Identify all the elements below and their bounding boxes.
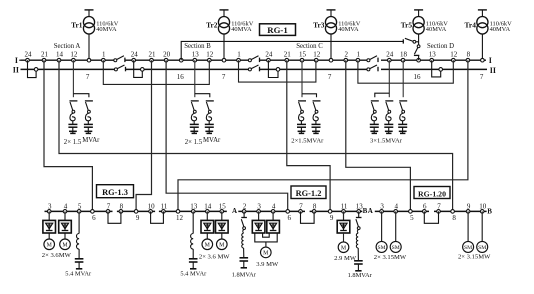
motor SM RG-1.20 node4 bbox=[390, 211, 401, 252]
wire feed capacitor bank A bbox=[73, 60, 89, 97]
node 8 RG-1.2 bbox=[312, 202, 317, 213]
svg-text:B: B bbox=[487, 208, 492, 216]
wire tie A1-B12 bbox=[103, 60, 209, 84]
label box RG-1.20 bbox=[414, 187, 450, 199]
svg-text:15: 15 bbox=[219, 202, 227, 210]
svg-text:10: 10 bbox=[148, 202, 156, 210]
wire reserve tie line bbox=[181, 39, 403, 60]
svg-text:3.9 MW: 3.9 MW bbox=[256, 261, 279, 268]
motor M RG-1.2 2.9MW bbox=[334, 233, 357, 262]
svg-text:14: 14 bbox=[204, 202, 212, 210]
label box RG-1.2 bbox=[291, 186, 326, 199]
node 21 section B bbox=[149, 51, 157, 62]
disconnector Tr5 lower bbox=[414, 45, 420, 60]
svg-text:RG-1.3: RG-1.3 bbox=[102, 188, 128, 197]
capacitor branch B2 bbox=[205, 101, 214, 133]
svg-text:1: 1 bbox=[237, 51, 241, 59]
bus II section C bbox=[260, 68, 367, 70]
disconnector bus I A-B bbox=[114, 56, 125, 62]
svg-text:9: 9 bbox=[136, 214, 140, 222]
disconnector bus I C-D bbox=[367, 56, 378, 62]
node 7 RG-1.20 bbox=[437, 202, 442, 213]
breaker RG-1.3 x65.0 bbox=[59, 211, 72, 239]
bus I section A bbox=[21, 59, 115, 61]
node 9 RG-1.20 bbox=[466, 202, 471, 213]
jumper bus I-II section B bbox=[134, 60, 144, 77]
capacitor branch D3 bbox=[398, 101, 407, 133]
label Section D bbox=[427, 43, 454, 50]
svg-text:1: 1 bbox=[357, 51, 361, 59]
svg-text:M: M bbox=[341, 246, 347, 252]
node Tr section A bbox=[87, 58, 91, 62]
motor M RG-1.2 3.9MW bbox=[256, 247, 279, 268]
svg-text:40MVA: 40MVA bbox=[96, 26, 117, 33]
node 13 section B bbox=[192, 51, 200, 62]
breaker RG-1.3 x207.3 bbox=[201, 211, 214, 239]
svg-text:40MVA: 40MVA bbox=[231, 26, 252, 33]
breaker RG-1.3 x49.2 bbox=[43, 211, 56, 239]
label box RG-1.3 bbox=[97, 185, 134, 198]
label bus I right bbox=[489, 56, 492, 65]
svg-text:21: 21 bbox=[284, 51, 292, 59]
svg-text:8: 8 bbox=[452, 214, 456, 222]
svg-text:M: M bbox=[47, 243, 53, 249]
label 2x3.15MW left bbox=[374, 254, 407, 261]
transformer Tr2 bbox=[206, 10, 254, 60]
svg-text:24: 24 bbox=[265, 51, 273, 59]
jumper bus I-II section A bbox=[28, 60, 38, 77]
reactor+capacitor RG-1.3 node13 bbox=[180, 211, 207, 277]
svg-text:II: II bbox=[490, 66, 496, 75]
svg-text:MVAr: MVAr bbox=[203, 137, 221, 144]
svg-text:13: 13 bbox=[192, 51, 200, 59]
disconnector+reactor+capacitor RG-1.2 node13 bbox=[348, 211, 373, 278]
node 8 section D bbox=[466, 51, 471, 62]
breaker RG-1.2 node3 bbox=[252, 211, 265, 233]
breaker RG-1.2 node4 bbox=[267, 211, 280, 233]
svg-text:24: 24 bbox=[386, 51, 394, 59]
disconnector bus II A-B bbox=[114, 65, 125, 71]
svg-text:11: 11 bbox=[341, 202, 348, 210]
svg-text:M: M bbox=[219, 243, 225, 249]
bus RG-1.20 seg1 bbox=[375, 210, 429, 212]
wire feeder C21 to RG-1.2 node9 bbox=[287, 60, 330, 211]
svg-text:6: 6 bbox=[423, 202, 427, 210]
label 2x3.6MW left bbox=[42, 252, 72, 259]
bus II section D bbox=[381, 68, 487, 70]
svg-text:12: 12 bbox=[176, 214, 184, 222]
node 13 section D bbox=[429, 51, 437, 62]
wire feed capacitor bank D bbox=[375, 60, 403, 97]
label bay 16 bbox=[177, 73, 185, 81]
svg-text:SM: SM bbox=[478, 245, 486, 251]
wire feeder A14 to RG-1.20 node8 bbox=[59, 60, 453, 211]
node 21 section C bbox=[284, 51, 292, 62]
svg-text:2× 3.15MW: 2× 3.15MW bbox=[458, 253, 491, 260]
svg-text:5.4 MVAr: 5.4 MVAr bbox=[180, 271, 207, 278]
svg-text:Section A: Section A bbox=[54, 43, 81, 50]
node 12 section D bbox=[450, 51, 458, 62]
svg-text:M: M bbox=[205, 243, 211, 249]
svg-text:21: 21 bbox=[149, 51, 157, 59]
svg-text:5: 5 bbox=[410, 214, 414, 222]
wire feeder C2 to RG-1.20 node5 bbox=[346, 60, 411, 211]
bus I section D bbox=[381, 59, 486, 61]
svg-text:3×1.5MVAr: 3×1.5MVAr bbox=[370, 137, 403, 144]
jumper RG-1.3 7-8 bbox=[108, 211, 121, 223]
disconnector bus II B-C bbox=[248, 65, 259, 71]
disconnector Tr5 upper bbox=[405, 38, 419, 43]
svg-text:8: 8 bbox=[313, 202, 317, 210]
node 9 RG-1.2 bbox=[328, 210, 334, 223]
svg-text:2.9 MW: 2.9 MW bbox=[334, 255, 357, 262]
node 5 RG-1.20 bbox=[409, 210, 415, 223]
motor M RG-1.3 x207.3 bbox=[202, 239, 213, 250]
capacitor branch A1 bbox=[68, 101, 77, 133]
svg-text:7: 7 bbox=[480, 73, 484, 81]
svg-text:2× 3.6MW: 2× 3.6MW bbox=[42, 252, 72, 259]
node 9 RG-1.3 bbox=[134, 210, 140, 223]
label bay 7 bbox=[480, 73, 484, 81]
svg-text:24: 24 bbox=[131, 51, 139, 59]
svg-text:MVAr: MVAr bbox=[82, 137, 100, 144]
svg-text:2× 1.5: 2× 1.5 bbox=[185, 139, 203, 146]
motor SM RG-1.20 node3 bbox=[376, 211, 387, 252]
node 4 RG-1.20 bbox=[394, 202, 399, 213]
svg-text:RG-1: RG-1 bbox=[267, 25, 288, 35]
label bus I left bbox=[15, 56, 21, 65]
svg-text:2: 2 bbox=[243, 202, 247, 210]
label 2x3.15MW right bbox=[458, 253, 491, 260]
node 3 RG-1.3 bbox=[47, 202, 52, 213]
node Tr section D bbox=[417, 58, 421, 62]
svg-text:RG-1.20: RG-1.20 bbox=[418, 189, 446, 198]
svg-text:10: 10 bbox=[479, 202, 487, 210]
svg-text:I: I bbox=[15, 56, 18, 65]
reactor+capacitor RG-1.3 node5 bbox=[65, 211, 92, 277]
node 12 section A bbox=[70, 51, 78, 62]
label bus II right bbox=[490, 66, 496, 75]
node 2 section C bbox=[344, 51, 349, 62]
node 3 RG-1.2 bbox=[257, 202, 262, 213]
bus I section C bbox=[260, 59, 367, 61]
svg-text:12: 12 bbox=[70, 51, 78, 59]
svg-text:2: 2 bbox=[345, 51, 349, 59]
label Section B bbox=[184, 43, 211, 50]
wire tie C1-D12 bbox=[358, 60, 453, 83]
svg-text:A: A bbox=[368, 207, 373, 215]
node 10 RG-1.20 bbox=[479, 202, 487, 213]
node 18 section D bbox=[400, 51, 408, 62]
svg-text:Section B: Section B bbox=[184, 43, 211, 50]
node 21 section A bbox=[41, 51, 49, 62]
svg-text:2× 3.6 MW: 2× 3.6 MW bbox=[199, 253, 230, 260]
svg-text:18: 18 bbox=[400, 51, 408, 59]
svg-text:Tr2: Tr2 bbox=[206, 21, 218, 30]
svg-text:4: 4 bbox=[272, 202, 276, 210]
motor SM RG-1.20 node9 bbox=[463, 211, 474, 252]
transformer Tr3 bbox=[313, 10, 361, 60]
svg-text:2× 3.15MW: 2× 3.15MW bbox=[374, 254, 407, 261]
svg-text:3: 3 bbox=[48, 202, 52, 210]
node 15 section C bbox=[299, 51, 307, 62]
svg-text:1.8MVAr: 1.8MVAr bbox=[348, 272, 373, 279]
svg-text:9: 9 bbox=[330, 214, 334, 222]
svg-text:RG-1.2: RG-1.2 bbox=[296, 189, 322, 198]
label B RG-1.2 bbox=[363, 207, 368, 215]
label A RG-1.2 bbox=[232, 207, 237, 215]
svg-text:16: 16 bbox=[177, 73, 185, 81]
bus II section B bbox=[125, 68, 249, 70]
wire Tr5 drop bbox=[418, 34, 420, 45]
motor M RG-1.3 x49.2 bbox=[44, 239, 55, 250]
wire feeder A21 to RG-1.3 node6 bbox=[44, 60, 92, 211]
node 14 RG-1.3 bbox=[204, 202, 212, 213]
svg-text:Tr5: Tr5 bbox=[401, 21, 413, 30]
capacitor branch C1 bbox=[297, 101, 306, 133]
svg-text:7: 7 bbox=[107, 202, 111, 210]
disconnector+reactor+capacitor RG-1.2 node2 bbox=[232, 211, 257, 278]
label 2x3.6MW right bbox=[199, 253, 230, 260]
wire feed capacitor bank C bbox=[302, 60, 317, 97]
motor SM RG-1.20 node10 bbox=[477, 211, 488, 252]
node 13 RG-1.3 bbox=[190, 202, 198, 213]
node 12 RG-1.3 bbox=[176, 210, 184, 223]
svg-text:A: A bbox=[232, 207, 237, 215]
svg-text:12: 12 bbox=[450, 51, 458, 59]
node 24 section D bbox=[386, 51, 394, 62]
label B RG-1.20 bbox=[487, 208, 492, 216]
label Section A bbox=[54, 43, 81, 50]
svg-text:Tr3: Tr3 bbox=[313, 21, 325, 30]
svg-text:SM: SM bbox=[392, 245, 400, 251]
svg-text:7: 7 bbox=[328, 73, 332, 81]
node 8 RG-1.3 bbox=[119, 202, 124, 213]
jumper RG-1.2 7-8 bbox=[301, 211, 315, 223]
bus RG-1.2 seg2 bbox=[310, 210, 363, 212]
svg-text:M: M bbox=[263, 251, 269, 257]
svg-text:7: 7 bbox=[222, 73, 226, 81]
disconnector bus I B-C bbox=[248, 56, 259, 62]
svg-text:6: 6 bbox=[92, 214, 96, 222]
wire feeder D8 to RG-1.3 node12 bbox=[178, 60, 468, 211]
wire feeder B20 to RG-1.2 node6 bbox=[166, 60, 288, 211]
svg-text:3: 3 bbox=[257, 202, 261, 210]
bus RG-1.3 seg1 bbox=[45, 210, 113, 212]
svg-text:16: 16 bbox=[414, 73, 422, 81]
motor M RG-1.3 x65.0 bbox=[60, 239, 71, 250]
wire feed capacitor bank B bbox=[195, 60, 210, 97]
capacitor branch D1 bbox=[370, 101, 379, 133]
svg-text:20: 20 bbox=[163, 51, 171, 59]
node 15 RG-1.3 bbox=[219, 202, 227, 213]
bus RG-1.20 seg2 bbox=[434, 210, 487, 212]
bus RG-1.3 seg2 bbox=[117, 210, 155, 212]
svg-text:7: 7 bbox=[299, 202, 303, 210]
node 7 RG-1.3 bbox=[106, 202, 111, 213]
label A RG-1.20 bbox=[368, 207, 373, 215]
svg-text:40MVA: 40MVA bbox=[338, 26, 359, 33]
svg-text:40MVA: 40MVA bbox=[490, 26, 511, 33]
label bay 16 bbox=[414, 73, 422, 81]
node 12 section C bbox=[313, 51, 321, 62]
bus RG-1.2 seg1 bbox=[238, 210, 305, 212]
jumper bus I-II section D bbox=[432, 60, 443, 77]
svg-text:M: M bbox=[62, 243, 68, 249]
svg-text:13: 13 bbox=[429, 51, 437, 59]
node Tr section D bbox=[481, 58, 485, 62]
disconnector bus II C-D bbox=[367, 65, 378, 71]
svg-text:SM: SM bbox=[464, 245, 472, 251]
label bay 7 bbox=[222, 73, 226, 81]
bus II section A bbox=[21, 68, 115, 70]
node 7 RG-1.2 bbox=[299, 202, 304, 213]
label bay 7 bbox=[86, 73, 90, 81]
bus RG-1.3 seg3 bbox=[159, 210, 227, 212]
svg-text:21: 21 bbox=[41, 51, 49, 59]
svg-text:13: 13 bbox=[356, 202, 364, 210]
svg-text:5.4 MVAr: 5.4 MVAr bbox=[65, 270, 92, 277]
bus I section B bbox=[125, 59, 249, 61]
svg-text:13: 13 bbox=[190, 202, 198, 210]
node 1 section C bbox=[356, 51, 361, 62]
svg-text:24: 24 bbox=[25, 51, 33, 59]
svg-text:SM: SM bbox=[378, 245, 386, 251]
svg-text:12: 12 bbox=[313, 51, 321, 59]
svg-text:9: 9 bbox=[467, 202, 471, 210]
svg-text:Section C: Section C bbox=[296, 43, 323, 50]
node Tr section C bbox=[329, 58, 333, 62]
node 8 RG-1.20 bbox=[451, 210, 457, 223]
svg-text:15: 15 bbox=[299, 51, 307, 59]
node 11 RG-1.2 bbox=[341, 202, 348, 213]
svg-text:14: 14 bbox=[56, 51, 64, 59]
capacitor branch A2 bbox=[84, 101, 93, 133]
node 12 section B bbox=[206, 51, 214, 62]
node 3 RG-1.20 bbox=[380, 202, 385, 213]
node 10 RG-1.3 bbox=[148, 202, 156, 213]
svg-text:2×1.5MVAr: 2×1.5MVAr bbox=[291, 137, 324, 144]
label bank B bbox=[185, 137, 221, 146]
label bank A bbox=[64, 137, 100, 146]
node Tr section B bbox=[222, 58, 226, 62]
svg-text:1: 1 bbox=[102, 51, 106, 59]
jumper RG-1.20 6-7 bbox=[424, 211, 438, 223]
node 2 RG-1.2 bbox=[242, 202, 247, 213]
label bus II left bbox=[13, 66, 19, 75]
jumper bus I-II section C bbox=[268, 60, 279, 77]
wire join motors RG-1.2 bbox=[255, 233, 277, 247]
svg-text:I: I bbox=[489, 56, 492, 65]
svg-text:5: 5 bbox=[78, 202, 82, 210]
node 20 section B bbox=[163, 51, 171, 62]
node 5 RG-1.3 bbox=[77, 202, 82, 213]
svg-text:8: 8 bbox=[120, 202, 124, 210]
node 1 section B bbox=[237, 51, 242, 62]
svg-text:Section D: Section D bbox=[427, 43, 454, 50]
node 24 section B bbox=[131, 51, 139, 62]
svg-text:4: 4 bbox=[64, 202, 68, 210]
svg-text:II: II bbox=[13, 66, 19, 75]
transformer Tr1 bbox=[71, 10, 119, 60]
node Tr section B bbox=[179, 58, 183, 62]
transformer Tr4 bbox=[465, 10, 513, 60]
label bay 7 bbox=[328, 73, 332, 81]
svg-text:4: 4 bbox=[394, 202, 398, 210]
label bank C bbox=[291, 137, 324, 144]
svg-text:Tr4: Tr4 bbox=[465, 21, 477, 30]
svg-text:8: 8 bbox=[467, 51, 471, 59]
node 6 RG-1.20 bbox=[423, 202, 428, 213]
svg-text:Tr1: Tr1 bbox=[71, 21, 83, 30]
node 6 RG-1.2 bbox=[286, 210, 292, 223]
capacitor branch B1 bbox=[190, 101, 199, 133]
transformer Tr5 bbox=[401, 10, 449, 34]
node 24 section C bbox=[265, 51, 273, 62]
node 4 RG-1.2 bbox=[271, 202, 276, 213]
label Section C bbox=[296, 43, 323, 50]
svg-text:11: 11 bbox=[161, 202, 168, 210]
svg-text:3: 3 bbox=[380, 202, 384, 210]
node 11 RG-1.3 bbox=[161, 202, 168, 213]
node 13 RG-1.2 bbox=[356, 202, 364, 213]
svg-text:12: 12 bbox=[206, 51, 214, 59]
node 6 RG-1.3 bbox=[91, 210, 97, 223]
label box RG-1 bbox=[260, 24, 296, 36]
node 4 RG-1.3 bbox=[63, 202, 68, 213]
node 24 section A bbox=[25, 51, 33, 62]
jumper RG-1.3 10-11 bbox=[151, 211, 164, 223]
breaker RG-1.2 node11 bbox=[337, 211, 350, 233]
breaker RG-1.3 x221.8 bbox=[216, 211, 229, 239]
wire feeder B21 to RG-1.3 node9 bbox=[136, 60, 151, 211]
node 14 section A bbox=[56, 51, 64, 62]
capacitor branch C2 bbox=[312, 101, 321, 133]
node 1 section A bbox=[102, 51, 107, 62]
svg-text:7: 7 bbox=[437, 202, 441, 210]
svg-text:1.8MVAr: 1.8MVAr bbox=[232, 271, 257, 278]
capacitor branch D2 bbox=[384, 101, 393, 133]
svg-text:2× 1.5: 2× 1.5 bbox=[64, 139, 82, 146]
wire tie B1-C12 bbox=[239, 60, 316, 82]
svg-text:7: 7 bbox=[86, 73, 90, 81]
svg-text:6: 6 bbox=[287, 214, 291, 222]
label bank D bbox=[370, 137, 403, 144]
motor M RG-1.3 x221.8 bbox=[217, 239, 228, 250]
svg-text:40MVA: 40MVA bbox=[426, 26, 447, 33]
